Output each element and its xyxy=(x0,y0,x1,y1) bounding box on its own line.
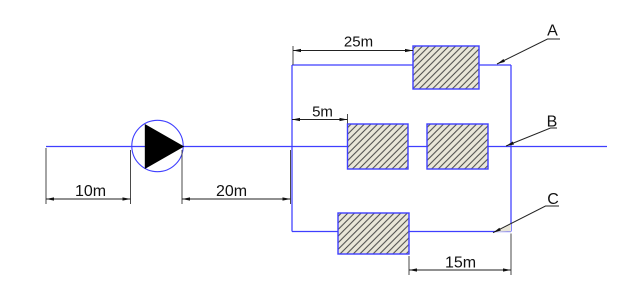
dimension 15m xyxy=(409,234,511,276)
svg-text:15m: 15m xyxy=(445,255,476,272)
leader line to node B xyxy=(506,128,557,146)
hatched pipe section 2 (branch B) xyxy=(427,124,488,169)
hatched pipe section (branch C) xyxy=(338,213,409,254)
svg-text:10m: 10m xyxy=(75,183,106,200)
branch loop: right vertical wire xyxy=(510,65,512,232)
leader line to node A xyxy=(497,39,560,64)
hatched pipe section 1 (branch B) xyxy=(348,124,409,169)
filled corner patch at node C xyxy=(494,224,511,233)
branch loop: top wire (branch A) xyxy=(292,64,511,66)
svg-text:5m: 5m xyxy=(312,104,333,121)
leader line to node C xyxy=(493,206,559,233)
svg-text:A: A xyxy=(547,23,558,40)
svg-text:25m: 25m xyxy=(344,34,373,51)
dimension 10m xyxy=(46,148,131,204)
main pipe wire xyxy=(46,146,607,148)
svg-text:C: C xyxy=(547,191,559,208)
dimension 25m xyxy=(293,34,413,66)
branch loop: bottom wire (branch C) xyxy=(292,231,511,233)
svg-text:20m: 20m xyxy=(216,183,247,200)
pump xyxy=(132,120,184,171)
svg-text:B: B xyxy=(547,114,558,131)
dimension 20m xyxy=(182,150,291,204)
dimension 5m xyxy=(292,104,348,124)
branch loop: left vertical wire xyxy=(291,65,293,232)
hatched pipe section (branch A) xyxy=(413,46,479,89)
